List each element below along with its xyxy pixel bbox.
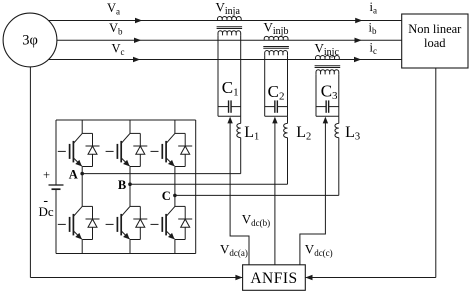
svg-text:+: + <box>43 168 50 182</box>
svg-text:A: A <box>69 167 78 181</box>
svg-text:Dc: Dc <box>39 204 54 219</box>
svg-text:ANFIS: ANFIS <box>250 270 297 287</box>
svg-text:load: load <box>424 36 446 50</box>
svg-text:B: B <box>118 178 126 192</box>
svg-text:3φ: 3φ <box>22 33 38 49</box>
svg-text:C: C <box>162 189 171 203</box>
svg-text:Non linear: Non linear <box>408 22 462 36</box>
